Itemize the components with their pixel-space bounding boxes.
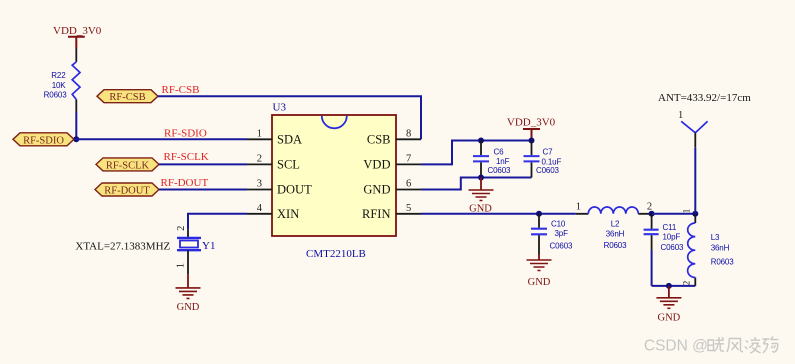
svg-text:C0603: C0603 bbox=[536, 166, 560, 175]
IC U3 body (CMT2210LB) bbox=[272, 102, 396, 260]
crystal Y1 bbox=[176, 226, 216, 274]
wire antenna down bbox=[694, 148, 696, 214]
svg-text:RF-CSB: RF-CSB bbox=[109, 92, 145, 103]
port RF-SCLK bbox=[96, 158, 159, 172]
watermark glyph shang bbox=[763, 337, 779, 354]
ground GND (below Y1) bbox=[176, 274, 201, 313]
svg-text:C7: C7 bbox=[543, 148, 554, 157]
svg-text:4: 4 bbox=[257, 203, 263, 214]
svg-text:C0603: C0603 bbox=[661, 243, 685, 252]
pin 5 RFIN bbox=[362, 203, 421, 221]
svg-text:GND: GND bbox=[363, 183, 390, 197]
svg-text:C0603: C0603 bbox=[488, 166, 512, 175]
svg-text:GND: GND bbox=[658, 312, 681, 323]
pin 1 SDA bbox=[247, 128, 302, 146]
watermark glyph ling bbox=[745, 337, 761, 353]
wire RF-SDIO to pin1 bbox=[74, 138, 247, 140]
svg-text:CMT2210LB: CMT2210LB bbox=[306, 248, 366, 260]
svg-text:RF-SDIO: RF-SDIO bbox=[164, 127, 207, 139]
svg-text:3pF: 3pF bbox=[555, 229, 569, 238]
capacitor C7 bbox=[524, 141, 562, 178]
svg-text:RF-DOUT: RF-DOUT bbox=[161, 177, 209, 189]
junction dot RF-SDIO bbox=[73, 136, 79, 142]
wire C11 bottom rail bbox=[652, 285, 696, 287]
svg-text:1: 1 bbox=[682, 209, 692, 214]
svg-text:VDD_3V0: VDD_3V0 bbox=[53, 25, 102, 37]
svg-text:2: 2 bbox=[257, 153, 262, 164]
svg-text:36nH: 36nH bbox=[711, 243, 730, 252]
junction antenna/L3 bbox=[692, 211, 698, 217]
svg-text:XIN: XIN bbox=[277, 207, 299, 221]
svg-text:C11: C11 bbox=[663, 223, 677, 232]
svg-text:DOUT: DOUT bbox=[277, 183, 312, 197]
svg-text:8: 8 bbox=[406, 128, 411, 139]
junction GND rail bbox=[666, 283, 672, 289]
svg-text:10K: 10K bbox=[52, 81, 67, 90]
svg-text:RF-DOUT: RF-DOUT bbox=[104, 186, 150, 197]
pin 7 VDD bbox=[363, 153, 421, 171]
svg-text:U3: U3 bbox=[273, 102, 287, 114]
svg-text:VDD: VDD bbox=[363, 158, 390, 172]
svg-text:SCL: SCL bbox=[277, 158, 300, 172]
watermark glyph feng bbox=[727, 339, 743, 353]
svg-text:7: 7 bbox=[406, 153, 411, 164]
svg-text:R0603: R0603 bbox=[711, 257, 735, 266]
svg-text:RF-CSB: RF-CSB bbox=[162, 84, 200, 96]
svg-text:6: 6 bbox=[406, 179, 411, 190]
watermark CSDN bbox=[644, 337, 779, 355]
svg-text:R0603: R0603 bbox=[44, 91, 68, 100]
svg-text:RFIN: RFIN bbox=[362, 207, 390, 221]
pin 2 SCL bbox=[247, 153, 300, 171]
svg-text:SDA: SDA bbox=[277, 133, 302, 147]
wire XIN to crystal bbox=[188, 214, 247, 230]
antenna ANT bbox=[658, 92, 751, 148]
junction C7 top bbox=[529, 138, 535, 144]
junction L2/C11 bbox=[649, 211, 655, 217]
junction C10 top bbox=[536, 211, 542, 217]
svg-text:2: 2 bbox=[176, 226, 187, 231]
svg-text:CSB: CSB bbox=[367, 133, 391, 147]
inductor L2 bbox=[576, 201, 652, 250]
port RF-CSB bbox=[97, 90, 158, 104]
svg-text:RF-SDIO: RF-SDIO bbox=[23, 135, 64, 146]
svg-text:C0603: C0603 bbox=[550, 242, 574, 251]
svg-text:C6: C6 bbox=[494, 147, 505, 156]
ground GND (below C11/L3) bbox=[656, 286, 681, 323]
svg-text:5: 5 bbox=[406, 203, 411, 214]
svg-text:1: 1 bbox=[678, 110, 683, 121]
svg-text:CSDN @: CSDN @ bbox=[644, 337, 708, 354]
junction C6 top bbox=[478, 138, 484, 144]
junction C6 bottom bbox=[478, 175, 484, 181]
port RF-SDIO bbox=[13, 133, 74, 147]
svg-text:RF-SCLK: RF-SCLK bbox=[164, 151, 209, 163]
svg-text:1: 1 bbox=[257, 128, 262, 139]
svg-text:R22: R22 bbox=[51, 71, 66, 80]
wire L2 to antenna node bbox=[652, 213, 696, 215]
ground GND (below C10) bbox=[527, 255, 552, 289]
wire RF-SCLK to pin2 bbox=[159, 163, 247, 165]
svg-text:2: 2 bbox=[682, 281, 692, 286]
svg-text:XTAL=27.1383MHZ: XTAL=27.1383MHZ bbox=[75, 240, 170, 252]
watermark glyph xiao bbox=[708, 337, 724, 351]
svg-text:RF-SCLK: RF-SCLK bbox=[106, 160, 150, 171]
pin 8 CSB bbox=[367, 128, 421, 146]
wire GND rail (pin 6) bbox=[421, 178, 532, 190]
ground GND (below C6) bbox=[469, 178, 494, 215]
svg-text:R0603: R0603 bbox=[604, 241, 628, 250]
svg-text:C10: C10 bbox=[551, 219, 566, 228]
svg-text:Y1: Y1 bbox=[202, 240, 215, 252]
svg-text:GND: GND bbox=[177, 302, 200, 313]
pin 3 DOUT bbox=[247, 179, 312, 197]
resistor R22 bbox=[44, 48, 80, 112]
capacitor C6 bbox=[473, 141, 511, 178]
svg-text:ANT=433.92/=17cm: ANT=433.92/=17cm bbox=[658, 92, 751, 104]
svg-text:1: 1 bbox=[176, 263, 187, 268]
pin 6 GND bbox=[363, 179, 421, 197]
svg-text:10pF: 10pF bbox=[663, 233, 681, 242]
svg-text:GND: GND bbox=[528, 277, 551, 288]
svg-text:1: 1 bbox=[576, 201, 581, 212]
wire VDD rail (pin 7) bbox=[421, 141, 532, 165]
svg-text:2: 2 bbox=[647, 201, 652, 212]
svg-text:VDD_3V0: VDD_3V0 bbox=[507, 117, 556, 129]
wire RF-DOUT to pin3 bbox=[159, 189, 247, 191]
wire R22 to junction bbox=[75, 112, 77, 139]
wire RF-CSB to pin8 bbox=[158, 96, 421, 139]
svg-text:36nH: 36nH bbox=[606, 230, 625, 239]
power VDD_3V0 (right, above C7) bbox=[507, 117, 556, 141]
svg-text:3: 3 bbox=[257, 179, 262, 190]
svg-text:1nF: 1nF bbox=[496, 157, 510, 166]
inductor L3 bbox=[682, 209, 735, 286]
port RF-DOUT bbox=[95, 183, 159, 197]
capacitor C10 bbox=[531, 214, 573, 255]
wire RFIN to L2 bbox=[421, 213, 576, 215]
power VDD_3V0 (left, above R22) bbox=[53, 25, 102, 48]
svg-text:L2: L2 bbox=[611, 219, 620, 228]
pin 4 XIN bbox=[247, 203, 299, 221]
svg-text:L3: L3 bbox=[711, 233, 720, 242]
capacitor C11 bbox=[644, 214, 684, 286]
